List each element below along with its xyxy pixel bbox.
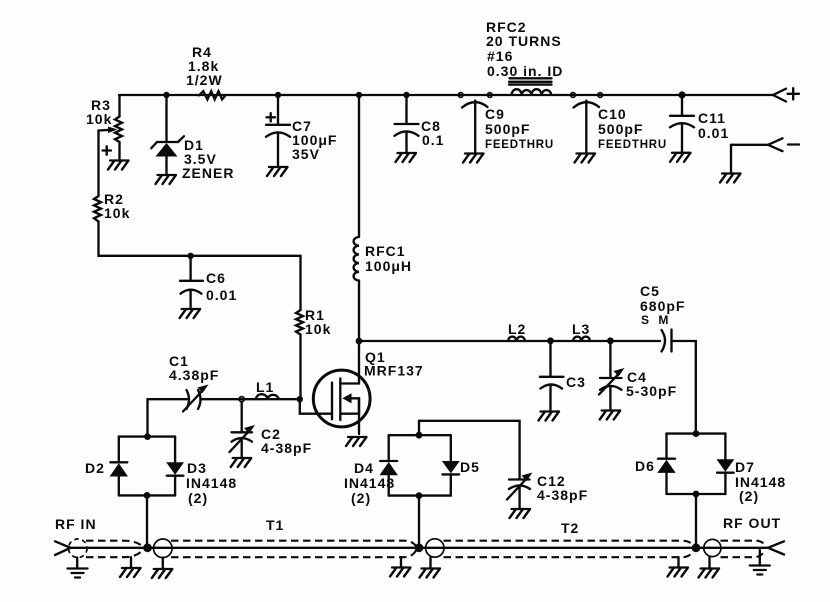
svg-text:100μH: 100μH xyxy=(365,258,412,274)
svg-text:500pF: 500pF xyxy=(598,121,643,137)
svg-text:1/2W: 1/2W xyxy=(186,72,223,88)
svg-text:10k: 10k xyxy=(104,205,130,221)
svg-text:10k: 10k xyxy=(86,111,112,127)
svg-text:0.01: 0.01 xyxy=(698,125,729,141)
svg-text:D5: D5 xyxy=(460,459,480,475)
svg-text:RF OUT: RF OUT xyxy=(723,515,781,531)
svg-text:(2): (2) xyxy=(739,488,759,504)
svg-text:680pF: 680pF xyxy=(640,298,685,314)
svg-text:MRF137: MRF137 xyxy=(364,363,424,379)
svg-text:C3: C3 xyxy=(566,374,586,390)
svg-text:C11: C11 xyxy=(698,110,726,126)
svg-text:D3: D3 xyxy=(187,460,207,476)
svg-text:L3: L3 xyxy=(572,321,590,337)
svg-text:0.30 in. ID: 0.30 in. ID xyxy=(487,63,563,79)
svg-text:500pF: 500pF xyxy=(485,121,530,137)
svg-text:35V: 35V xyxy=(292,146,320,162)
svg-text:T2: T2 xyxy=(561,520,579,536)
svg-text:C10: C10 xyxy=(598,106,627,122)
svg-text:FEEDTHRU: FEEDTHRU xyxy=(485,139,554,151)
svg-text:ZENER: ZENER xyxy=(182,165,234,181)
svg-text:C5: C5 xyxy=(640,283,660,299)
svg-text:5-30pF: 5-30pF xyxy=(626,383,677,399)
svg-text:(2): (2) xyxy=(351,490,371,506)
svg-text:D2: D2 xyxy=(85,460,105,476)
svg-text:L1: L1 xyxy=(256,379,274,395)
svg-text:0.1: 0.1 xyxy=(422,132,444,148)
svg-text:#16: #16 xyxy=(487,48,513,64)
svg-text:D6: D6 xyxy=(635,458,655,474)
svg-text:RF IN: RF IN xyxy=(55,516,97,532)
svg-text:IN4148: IN4148 xyxy=(344,475,395,491)
svg-text:D4: D4 xyxy=(354,460,374,476)
svg-text:C6: C6 xyxy=(206,270,226,286)
svg-text:S M: S M xyxy=(641,313,671,327)
svg-text:D7: D7 xyxy=(735,459,755,475)
svg-text:RFC1: RFC1 xyxy=(365,243,406,259)
svg-text:FEEDTHRU: FEEDTHRU xyxy=(598,139,667,151)
svg-text:4.38pF: 4.38pF xyxy=(169,367,219,383)
svg-text:(2): (2) xyxy=(188,490,208,506)
svg-text:T1: T1 xyxy=(266,517,284,533)
svg-text:L2: L2 xyxy=(508,321,526,337)
svg-text:0.01: 0.01 xyxy=(206,287,237,303)
svg-text:20 TURNS: 20 TURNS xyxy=(486,33,562,49)
svg-text:4-38pF: 4-38pF xyxy=(261,440,312,456)
svg-text:C9: C9 xyxy=(485,106,505,122)
svg-text:IN4148: IN4148 xyxy=(186,475,237,491)
svg-text:10k: 10k xyxy=(305,321,331,337)
svg-text:4-38pF: 4-38pF xyxy=(537,487,588,503)
